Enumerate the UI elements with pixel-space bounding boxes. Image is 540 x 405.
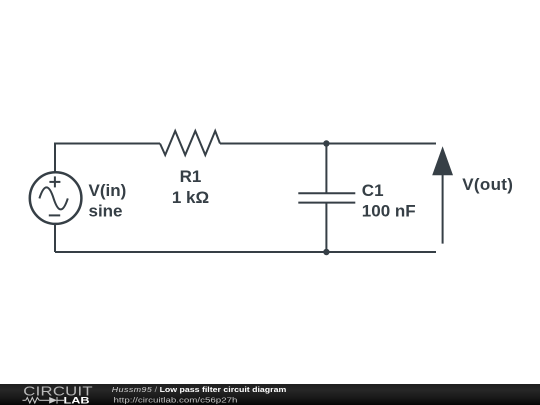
- svg-text:LAB: LAB: [64, 396, 90, 405]
- svg-text:100 nF: 100 nF: [362, 202, 416, 221]
- svg-text:V(in): V(in): [89, 181, 127, 200]
- svg-text:C1: C1: [362, 181, 384, 200]
- svg-text:1 kΩ: 1 kΩ: [172, 188, 209, 207]
- svg-text:Hussm95 / Low pass filter circ: Hussm95 / Low pass filter circuit diagra…: [112, 386, 286, 394]
- svg-text:sine: sine: [89, 202, 123, 221]
- svg-text:V(out): V(out): [462, 175, 513, 194]
- svg-text:R1: R1: [180, 167, 202, 186]
- svg-text:http://circuitlab.com/c56p27h: http://circuitlab.com/c56p27h: [114, 396, 238, 405]
